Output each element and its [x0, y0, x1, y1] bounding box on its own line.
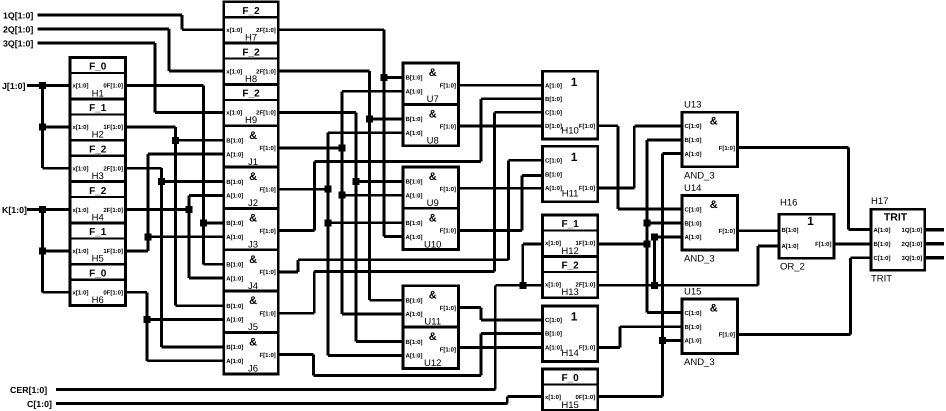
- AND_3 block U14: [682, 183, 738, 265]
- svg-text:A[1:0]: A[1:0]: [226, 358, 243, 365]
- AND gate U9: [403, 167, 459, 209]
- svg-text:x[1:0]: x[1:0]: [73, 83, 89, 90]
- OR block H10: [543, 71, 598, 139]
- wire J1.F to U7.A, U9.A, U11.A: [278, 91, 403, 314]
- svg-text:A[1:0]: A[1:0]: [406, 89, 423, 96]
- svg-text:F[1:0]: F[1:0]: [579, 345, 595, 352]
- svg-text:TRIT: TRIT: [884, 211, 908, 223]
- wire H15.0F to U13.A and U15.A: [598, 154, 682, 397]
- svg-text:J6: J6: [248, 364, 258, 375]
- svg-text:F[1:0]: F[1:0]: [579, 123, 595, 130]
- wire H12.1F to U13.B, U14.B, U15.C: [598, 140, 682, 313]
- svg-text:B[1:0]: B[1:0]: [226, 179, 243, 186]
- svg-text:B[1:0]: B[1:0]: [226, 262, 243, 269]
- svg-text:x[1:0]: x[1:0]: [73, 165, 89, 172]
- svg-text:F_0: F_0: [89, 62, 107, 73]
- svg-text:2F[1:0]: 2F[1:0]: [103, 207, 123, 214]
- svg-text:&: &: [249, 254, 257, 266]
- svg-text:F[1:0]: F[1:0]: [259, 228, 275, 235]
- AND gate U12: [403, 327, 459, 369]
- svg-text:B[1:0]: B[1:0]: [226, 344, 243, 351]
- svg-text:C[1:0]: C[1:0]: [27, 399, 52, 409]
- AND_3 block U13: [682, 100, 738, 182]
- svg-text:A[1:0]: A[1:0]: [545, 345, 562, 352]
- svg-text:A[1:0]: A[1:0]: [874, 227, 891, 234]
- svg-text:AND_3: AND_3: [684, 254, 715, 265]
- svg-text:B[1:0]: B[1:0]: [685, 137, 702, 144]
- svg-text:&: &: [429, 331, 437, 343]
- OR block H11: [543, 146, 598, 202]
- svg-text:F[1:0]: F[1:0]: [440, 346, 456, 353]
- svg-text:C[1:0]: C[1:0]: [545, 317, 562, 324]
- svg-text:C[1:0]: C[1:0]: [545, 158, 562, 165]
- svg-text:&: &: [249, 337, 257, 349]
- svg-text:B[1:0]: B[1:0]: [226, 303, 243, 310]
- svg-text:x[1:0]: x[1:0]: [226, 110, 242, 117]
- svg-text:&: &: [429, 67, 437, 79]
- svg-text:1F[1:0]: 1F[1:0]: [103, 124, 123, 131]
- svg-text:F[1:0]: F[1:0]: [259, 186, 275, 193]
- svg-text:1: 1: [807, 214, 814, 228]
- svg-text:F[1:0]: F[1:0]: [440, 228, 456, 235]
- svg-text:F[1:0]: F[1:0]: [719, 228, 735, 235]
- wire U10.F to H11.B: [459, 175, 543, 230]
- svg-text:2F[1:0]: 2F[1:0]: [256, 27, 276, 34]
- svg-text:2Q[1:0]: 2Q[1:0]: [3, 25, 33, 35]
- svg-text:H15: H15: [561, 400, 578, 411]
- svg-text:x[1:0]: x[1:0]: [545, 282, 561, 289]
- svg-text:A[1:0]: A[1:0]: [406, 234, 423, 241]
- svg-text:F[1:0]: F[1:0]: [440, 82, 456, 89]
- svg-text:F[1:0]: F[1:0]: [719, 145, 735, 152]
- svg-text:U13: U13: [684, 100, 701, 111]
- svg-text:1F[1:0]: 1F[1:0]: [103, 248, 123, 255]
- svg-text:1: 1: [571, 150, 578, 164]
- wire H10.F to U14.C: [598, 126, 682, 209]
- svg-text:A[1:0]: A[1:0]: [406, 353, 423, 360]
- svg-text:&: &: [249, 171, 257, 183]
- svg-text:B[1:0]: B[1:0]: [406, 179, 423, 186]
- F_2 block H13: [543, 256, 598, 298]
- svg-text:H13: H13: [561, 287, 578, 298]
- svg-text:F[1:0]: F[1:0]: [440, 186, 456, 193]
- svg-text:F_0: F_0: [561, 373, 579, 384]
- svg-text:AND_3: AND_3: [684, 357, 715, 368]
- svg-text:x[1:0]: x[1:0]: [545, 240, 561, 247]
- svg-text:H14: H14: [561, 348, 578, 359]
- svg-text:F[1:0]: F[1:0]: [259, 352, 275, 359]
- F_2 block H7: [224, 2, 278, 44]
- svg-text:F[1:0]: F[1:0]: [579, 185, 595, 192]
- wire net CER to H12.x and H13.x: [56, 244, 543, 390]
- AND gate U8: [403, 104, 459, 146]
- wire U9.F to H11.A: [459, 187, 543, 190]
- svg-text:&: &: [710, 199, 718, 211]
- svg-text:U10: U10: [424, 239, 441, 250]
- svg-text:C[1:0]: C[1:0]: [685, 310, 702, 317]
- AND gate J3: [224, 208, 278, 250]
- svg-text:B[1:0]: B[1:0]: [782, 227, 799, 234]
- svg-text:F[1:0]: F[1:0]: [259, 269, 275, 276]
- AND gate J5: [224, 291, 278, 333]
- svg-text:F[1:0]: F[1:0]: [259, 310, 275, 317]
- svg-text:D[1:0]: D[1:0]: [545, 123, 562, 130]
- wire net J to H1/H2/H3 x pins: [27, 82, 70, 168]
- svg-text:F_0: F_0: [89, 268, 107, 279]
- wire net C to H15.x: [56, 397, 543, 404]
- wire U8.F to H10.D: [459, 125, 543, 128]
- wire U15.F to H17.C: [738, 258, 872, 335]
- OR_2 block H16: [779, 198, 834, 273]
- svg-text:A[1:0]: A[1:0]: [406, 311, 423, 318]
- svg-text:OR_2: OR_2: [780, 262, 805, 273]
- AND gate J4: [224, 250, 278, 292]
- svg-text:x[1:0]: x[1:0]: [73, 248, 89, 255]
- wire J2.F to U8.A, U10.B, U12.A: [278, 133, 403, 356]
- svg-text:H11: H11: [562, 188, 579, 199]
- svg-text:F_2: F_2: [242, 47, 260, 58]
- wire J5.F to H10.C: [278, 112, 542, 313]
- svg-text:F[1:0]: F[1:0]: [440, 305, 456, 312]
- wire H5.1F to J1.A and J3.A: [126, 154, 224, 251]
- F_2 block H3: [70, 140, 126, 182]
- svg-text:F[1:0]: F[1:0]: [719, 332, 735, 339]
- svg-text:x[1:0]: x[1:0]: [226, 27, 242, 34]
- svg-text:x[1:0]: x[1:0]: [73, 207, 89, 214]
- svg-text:A[1:0]: A[1:0]: [406, 192, 423, 199]
- F_0 block H6: [70, 264, 126, 306]
- F_2 block H8: [224, 43, 278, 85]
- svg-text:J[1:0]: J[1:0]: [2, 81, 26, 91]
- svg-text:3Q[1:0]: 3Q[1:0]: [902, 255, 923, 262]
- svg-text:A[1:0]: A[1:0]: [545, 185, 562, 192]
- AND gate J1: [224, 126, 278, 168]
- wire H17.2Q output: [925, 242, 944, 245]
- wire net K to H4/H5/H6 x pins: [27, 206, 70, 292]
- svg-text:F_2: F_2: [242, 6, 260, 17]
- wire H11.F to U13.C: [598, 126, 682, 188]
- wire H17.1Q output: [925, 228, 944, 231]
- svg-text:2F[1:0]: 2F[1:0]: [256, 68, 276, 75]
- svg-text:F_2: F_2: [89, 144, 107, 155]
- svg-text:&: &: [429, 290, 437, 302]
- svg-text:B[1:0]: B[1:0]: [406, 297, 423, 304]
- svg-text:B[1:0]: B[1:0]: [685, 220, 702, 227]
- svg-text:C[1:0]: C[1:0]: [545, 109, 562, 116]
- svg-text:CER[1:0]: CER[1:0]: [10, 385, 47, 395]
- svg-text:2F[1:0]: 2F[1:0]: [103, 165, 123, 172]
- AND gate J6: [224, 333, 278, 375]
- svg-text:B[1:0]: B[1:0]: [545, 331, 562, 338]
- svg-text:F_1: F_1: [561, 219, 579, 230]
- svg-text:&: &: [429, 171, 437, 183]
- wire H3.2F to J2.B and J6.B: [126, 168, 224, 347]
- wire U11.F to H14.C: [459, 307, 543, 320]
- svg-text:3Q[1:0]: 3Q[1:0]: [3, 39, 33, 49]
- svg-text:U15: U15: [684, 287, 701, 298]
- svg-text:C[1:0]: C[1:0]: [685, 206, 702, 213]
- svg-text:U12: U12: [424, 358, 441, 369]
- svg-text:U8: U8: [427, 135, 439, 146]
- svg-text:2Q[1:0]: 2Q[1:0]: [902, 241, 923, 248]
- svg-text:0F[1:0]: 0F[1:0]: [103, 83, 123, 90]
- svg-text:A[1:0]: A[1:0]: [226, 317, 243, 324]
- wire H6.0F to J5.A and J6.A: [126, 292, 224, 361]
- svg-text:B[1:0]: B[1:0]: [545, 171, 562, 178]
- svg-text:B[1:0]: B[1:0]: [545, 96, 562, 103]
- wire U12.F to H14.A: [459, 346, 543, 349]
- svg-text:&: &: [249, 295, 257, 307]
- wire J3.F to H10.B: [278, 99, 542, 231]
- svg-text:2F[1:0]: 2F[1:0]: [256, 110, 276, 117]
- wire H8.2F to U8.B and U11.B: [278, 71, 403, 300]
- wire H4.2F to J2.A and J4.A: [126, 195, 224, 278]
- svg-text:TRIT: TRIT: [871, 274, 892, 285]
- wire H14.F to U15.B: [598, 327, 682, 348]
- TRIT block H17: [871, 196, 925, 285]
- svg-text:B[1:0]: B[1:0]: [685, 324, 702, 331]
- wire U13.F to H17.A: [738, 148, 872, 230]
- svg-text:A[1:0]: A[1:0]: [782, 243, 799, 250]
- svg-text:F[1:0]: F[1:0]: [259, 145, 275, 152]
- svg-text:F_2: F_2: [242, 89, 260, 100]
- wire H9.2F to U9.B and U12.B: [278, 112, 403, 341]
- svg-text:B[1:0]: B[1:0]: [226, 137, 243, 144]
- svg-text:x[1:0]: x[1:0]: [226, 68, 242, 75]
- svg-text:1: 1: [571, 75, 578, 89]
- svg-text:1Q[1:0]: 1Q[1:0]: [3, 11, 33, 21]
- svg-text:U14: U14: [684, 183, 701, 194]
- AND gate U10: [403, 208, 459, 250]
- wire H16.F to H17.B: [834, 242, 871, 245]
- svg-text:&: &: [249, 212, 257, 224]
- svg-text:A[1:0]: A[1:0]: [226, 151, 243, 158]
- svg-text:B[1:0]: B[1:0]: [406, 339, 423, 346]
- AND gate U11: [403, 286, 459, 328]
- svg-text:B[1:0]: B[1:0]: [406, 75, 423, 82]
- svg-text:B[1:0]: B[1:0]: [406, 116, 423, 123]
- svg-text:C[1:0]: C[1:0]: [685, 123, 702, 130]
- AND gate J2: [224, 167, 278, 209]
- svg-text:H16: H16: [780, 198, 797, 209]
- svg-text:H6: H6: [92, 295, 104, 306]
- svg-text:x[1:0]: x[1:0]: [73, 289, 89, 296]
- svg-text:&: &: [429, 108, 437, 120]
- F_1 block H2: [70, 99, 126, 141]
- svg-text:F_1: F_1: [89, 227, 107, 238]
- svg-text:AND_3: AND_3: [684, 170, 715, 181]
- svg-text:B[1:0]: B[1:0]: [406, 220, 423, 227]
- svg-text:A[1:0]: A[1:0]: [685, 338, 702, 345]
- svg-text:H10: H10: [561, 125, 578, 136]
- F_0 block H15: [543, 369, 598, 411]
- svg-text:F_2: F_2: [89, 186, 107, 197]
- svg-text:x[1:0]: x[1:0]: [545, 394, 561, 401]
- svg-text:F_2: F_2: [561, 261, 579, 272]
- svg-text:B[1:0]: B[1:0]: [874, 241, 891, 248]
- svg-text:K[1:0]: K[1:0]: [2, 205, 27, 215]
- svg-text:&: &: [710, 303, 718, 315]
- svg-text:A[1:0]: A[1:0]: [226, 234, 243, 241]
- F_2 block H9: [224, 84, 278, 126]
- wire H1.0F to J3.B and J4.B: [126, 86, 224, 265]
- svg-text:A[1:0]: A[1:0]: [226, 275, 243, 282]
- wire H13.2F to U14.A and H16.A: [598, 234, 779, 289]
- svg-text:F[1:0]: F[1:0]: [815, 241, 831, 248]
- F_0 block H1: [70, 58, 126, 100]
- F_2 block H4: [70, 182, 126, 224]
- wire net 1Q to H7.x: [38, 15, 224, 30]
- wire H17.3Q output: [925, 256, 944, 259]
- AND_3 block U15: [682, 287, 738, 369]
- wire H7.2F to U7.B and U10.A: [278, 30, 403, 237]
- wire net 3Q to H9.x: [38, 43, 224, 112]
- wire J4.F to H11.C: [278, 160, 542, 272]
- svg-text:1: 1: [571, 309, 578, 323]
- svg-text:H17: H17: [871, 196, 888, 207]
- svg-text:&: &: [710, 116, 718, 128]
- wire U14.F to H16.B: [738, 229, 780, 232]
- svg-text:F_1: F_1: [89, 103, 107, 114]
- svg-text:A[1:0]: A[1:0]: [226, 193, 243, 200]
- svg-text:B[1:0]: B[1:0]: [226, 220, 243, 227]
- svg-text:1Q[1:0]: 1Q[1:0]: [902, 227, 923, 234]
- svg-text:A[1:0]: A[1:0]: [406, 130, 423, 137]
- svg-text:F[1:0]: F[1:0]: [440, 124, 456, 131]
- F_1 block H5: [70, 223, 126, 265]
- wire J6.F to H14.B: [278, 333, 542, 375]
- wire U7.F to H10.A: [459, 84, 543, 87]
- F_1 block H12: [543, 215, 598, 257]
- wire net 2Q to H8.x: [38, 29, 224, 71]
- svg-text:A[1:0]: A[1:0]: [545, 82, 562, 89]
- svg-text:A[1:0]: A[1:0]: [685, 234, 702, 241]
- svg-text:0F[1:0]: 0F[1:0]: [103, 289, 123, 296]
- svg-text:&: &: [429, 212, 437, 224]
- svg-text:x[1:0]: x[1:0]: [73, 124, 89, 131]
- OR block H14: [543, 306, 598, 362]
- svg-text:C[1:0]: C[1:0]: [874, 255, 891, 262]
- svg-text:&: &: [249, 130, 257, 142]
- svg-text:A[1:0]: A[1:0]: [685, 151, 702, 158]
- wire H2.1F to J1.B and J5.B: [126, 127, 224, 306]
- AND gate U7: [403, 63, 459, 105]
